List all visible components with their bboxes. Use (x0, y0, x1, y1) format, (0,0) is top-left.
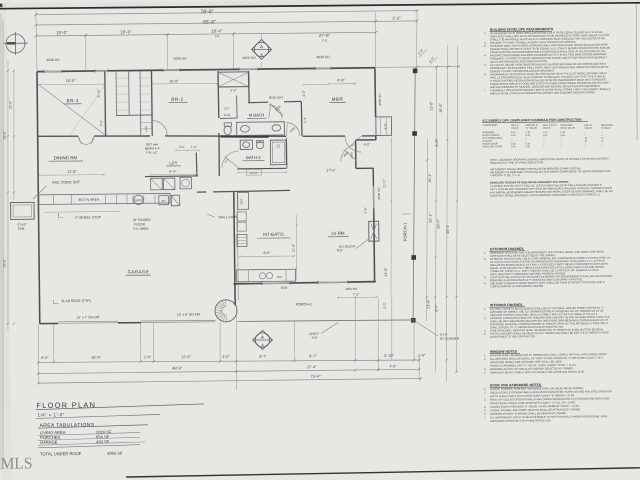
dimension 4'-8 MBR (328, 83, 355, 85)
svg-text:5'-0": 5'-0" (435, 139, 439, 147)
svg-text:MAX U: MAX U (511, 124, 519, 127)
svg-text:KIT-EAT'G: KIT-EAT'G (263, 232, 284, 237)
svg-text:GARAGE: GARAGE (128, 269, 150, 274)
svg-text:6.: 6. (484, 412, 486, 416)
svg-text:25'-0": 25'-0" (8, 100, 12, 109)
svg-text:0.60: 0.60 (561, 135, 566, 137)
svg-text:CLO: CLO (224, 113, 231, 117)
svg-text:0.45: 0.45 (561, 132, 566, 134)
dim line laundry width (150, 173, 196, 176)
svg-text:BR-2: BR-2 (171, 97, 183, 102)
bath2 tub (270, 140, 286, 165)
svg-text:3'-0": 3'-0" (179, 145, 185, 149)
svg-text:3'-6": 3'-6" (363, 207, 367, 213)
svg-text:2.: 2. (484, 257, 486, 261)
svg-text:0.40: 0.40 (511, 146, 516, 148)
svg-text:5.: 5. (484, 371, 486, 375)
wall LVRM east upper (372, 168, 375, 213)
wall dinette west (355, 140, 357, 168)
svg-text:0.47: 0.47 (543, 135, 548, 137)
wall master bath north (248, 101, 268, 103)
svg-text:CEILING: CEILING (482, 141, 492, 143)
svg-text:11'-8": 11'-8" (67, 170, 77, 174)
wall kitchen north (197, 191, 206, 193)
BR3 ceiling diagonals (38, 84, 104, 135)
svg-text:39'-0": 39'-0" (436, 219, 440, 229)
svg-text:3030: 3030 (281, 286, 288, 290)
window in LVRM east wall (372, 186, 374, 208)
svg-text:12' x 7' OH DR: 12' x 7' OH DR (76, 315, 100, 319)
kitchen counter south (237, 269, 296, 282)
svg-text:PORCH-1: PORCH-1 (402, 222, 407, 242)
wall garage south with OH door openings (40, 322, 58, 324)
master bath vanity with two sinks (237, 122, 285, 136)
svg-text:2'-0": 2'-0" (144, 355, 152, 359)
svg-text:16'-8": 16'-8" (169, 79, 179, 83)
closet shelf line (116, 114, 152, 116)
windows in north wall (44, 70, 62, 72)
svg-text:--: -- (585, 144, 587, 146)
porch east edge line with posts (410, 67, 418, 321)
dim line hall small (176, 149, 199, 151)
dimension row 10'-0 16'-0 18'-4 27'-8 (36, 32, 376, 36)
svg-text:6.: 6. (484, 72, 486, 76)
svg-text:2.: 2. (484, 316, 486, 320)
svg-text:4.: 4. (484, 405, 486, 409)
svg-text:8'-7": 8'-7" (259, 355, 267, 359)
scan shading left margin (0, 4, 12, 480)
chimney chase box with X brace (218, 72, 249, 87)
wall laundry east (195, 152, 198, 176)
svg-text:75'-4": 75'-4" (310, 374, 321, 379)
svg-text:--: -- (585, 132, 587, 134)
dim line MBR width (303, 83, 326, 85)
wall dinette south (356, 167, 373, 169)
svg-text:32'-1": 32'-1" (428, 213, 432, 223)
door arc MBR entry (345, 136, 361, 152)
svg-text:18'-6": 18'-6" (439, 102, 443, 112)
svg-text:10'-8": 10'-8" (250, 171, 258, 175)
svg-text:5.: 5. (484, 408, 486, 412)
svg-text:--: -- (543, 138, 545, 140)
svg-text:F.K.: F.K. (215, 34, 221, 38)
svg-text:MBR: MBR (332, 97, 344, 102)
svg-text:4'-0": 4'-0" (302, 89, 306, 97)
dim line BR2 width (153, 82, 217, 85)
svg-text:4050 SO: 4050 SO (345, 287, 358, 291)
svg-text:--: -- (601, 146, 603, 148)
svg-text:4'-4": 4'-4" (383, 122, 387, 130)
svg-text:1'-4": 1'-4" (303, 117, 307, 123)
entry corner glass block quarter circle (215, 300, 237, 322)
svg-text:2'-0": 2'-0" (418, 354, 426, 358)
svg-text:4050 RU: 4050 RU (378, 93, 382, 105)
svg-text:6'-0": 6'-0" (41, 356, 49, 360)
svg-text:18'-5": 18'-5" (66, 79, 76, 83)
svg-text:0.40: 0.40 (511, 132, 516, 134)
svg-text:--: -- (543, 141, 545, 143)
svg-text:F.K.: F.K. (322, 39, 328, 43)
svg-text:SLAB RECE (TYP): SLAB RECE (TYP) (61, 299, 91, 303)
svg-text:1.: 1. (484, 353, 486, 357)
svg-text:BUT-N AREA: BUT-N AREA (79, 198, 101, 202)
svg-text:--: -- (543, 144, 545, 146)
svg-text:18'-4": 18'-4" (211, 29, 223, 34)
svg-text:--: -- (525, 141, 527, 143)
dim line BR3 width (39, 83, 103, 86)
svg-text:VALUE: VALUE (543, 127, 551, 130)
svg-text:"U" VALUE: "U" VALUE (525, 127, 537, 130)
bath2 toilet (256, 142, 263, 149)
svg-text:WOOD DOOR: WOOD DOOR (482, 143, 497, 145)
laundry washer dryer boxes (151, 178, 163, 190)
svg-text:HAC CORD SHT: HAC CORD SHT (52, 180, 81, 184)
svg-text:7.: 7. (484, 415, 486, 419)
svg-text:MAX U ASCT: MAX U ASCT (543, 124, 558, 127)
svg-text:4'-0": 4'-0" (390, 364, 398, 368)
svg-text:--: -- (526, 138, 528, 140)
svg-text:0.40: 0.40 (511, 135, 516, 137)
svg-text:GARAGE: GARAGE (40, 440, 58, 445)
svg-text:16'-0": 16'-0" (120, 29, 132, 34)
svg-text:--: -- (601, 135, 603, 137)
svg-text:F.N. L/C: F.N. L/C (146, 150, 158, 154)
svg-text:3'-6": 3'-6" (230, 88, 236, 92)
boxed dimension 10-8 (246, 169, 261, 175)
cabinet diagonal box (171, 195, 180, 206)
svg-text:48'-0": 48'-0" (172, 366, 183, 371)
svg-text:4050 SO: 4050 SO (242, 56, 256, 60)
sheet left edge lines (0, 14, 6, 470)
svg-text:4040 SO: 4040 SO (377, 187, 381, 200)
svg-text:WALL CABS: WALL CABS (219, 215, 238, 219)
svg-text:--: -- (585, 135, 587, 137)
wall jog dinette north (356, 139, 376, 141)
svg-text:41'-8": 41'-8" (384, 267, 388, 277)
svg-text:5'2": 5'2" (224, 107, 229, 111)
kitchen refrigerator box (238, 192, 249, 209)
svg-text:66'-8": 66'-8" (203, 20, 216, 26)
svg-text:27'-8": 27'-8" (319, 33, 331, 38)
svg-text:8'-6": 8'-6" (263, 251, 271, 255)
A/C unit section symbol bottom (255, 333, 270, 348)
svg-text:16'-1": 16'-1" (428, 173, 432, 183)
svg-text:3.: 3. (484, 398, 486, 402)
kitchen pantry shelves (237, 234, 247, 246)
door arc BR3 double (78, 136, 86, 144)
svg-text:PROVIDED: PROVIDED (601, 125, 614, 127)
wall MBR east lower (375, 135, 377, 139)
door arc bath2 from laundry (222, 151, 239, 168)
sheet right edge line (636, 4, 638, 140)
svg-text:8'-7": 8'-7" (309, 354, 317, 358)
wall BR3 east (104, 71, 107, 136)
wall MBR east (374, 68, 377, 117)
wall bath2 south (237, 167, 286, 170)
svg-text:VALUE: VALUE (511, 127, 519, 130)
svg-text:3'-0": 3'-0" (222, 355, 230, 359)
AC symbol top extension (260, 34, 262, 42)
dimension extension verticals top (36, 11, 37, 70)
A/C unit section symbol top (254, 42, 269, 57)
svg-text:0.40: 0.40 (511, 144, 516, 146)
svg-text:PROVIDED: PROVIDED (561, 125, 574, 127)
svg-text:THROUGH C, DE, Y, L, D.: THROUGH C, DE, Y, L, D. (490, 173, 521, 177)
svg-text:BR-3: BR-3 (67, 98, 79, 103)
svg-text:2'-0": 2'-0" (383, 301, 387, 309)
svg-text:3.: 3. (484, 275, 486, 279)
closet CLO box master bath (236, 95, 238, 118)
svg-text:--: -- (561, 138, 563, 140)
svg-text:REF: REF (239, 198, 243, 204)
sheet top border line (0, 1, 640, 10)
wall garage west (38, 192, 39, 323)
svg-text:7'-2": 7'-2" (353, 292, 360, 296)
fireplace box LVRM (369, 221, 379, 241)
wall master bath west upper (247, 71, 250, 103)
wall WIC east = MBR west (300, 101, 303, 136)
svg-text:GLASS DOORS: GLASS DOORS (482, 134, 499, 137)
svg-text:REQUIRED AT TIME OF FINAL INSP: REQUIRED AT TIME OF FINAL INSPECTION. (490, 160, 544, 165)
svg-text:AT CORNER: AT CORNER (440, 337, 460, 341)
windows in south wall (262, 282, 290, 284)
svg-text:HARDWARE APPROVED FOR HANDICAP: HARDWARE APPROVED FOR HANDICAPPED USE. (490, 418, 552, 423)
svg-text:P.V. AREA: P.V. AREA (133, 227, 149, 231)
dimension line 66'-8 and 3'-0 (36, 21, 417, 26)
dimension vertical LVRM 11'-4 (295, 215, 297, 281)
door arc dinette to porch (341, 145, 357, 162)
svg-text:VALUE: VALUE (584, 127, 592, 130)
svg-text:2.: 2. (484, 391, 486, 395)
kitchen cabinet band dining side (39, 193, 170, 204)
sheet bottom border line (126, 468, 640, 477)
wall exterior west (37, 72, 38, 193)
svg-text:3.: 3. (484, 44, 486, 48)
kitchen west wall cabinet boxes (237, 212, 246, 221)
svg-text:10'-0": 10'-0" (56, 30, 68, 35)
svg-text:FDN: FDN (18, 227, 25, 231)
svg-text:3'-0": 3'-0" (392, 16, 401, 21)
svg-text:49'-4": 49'-4" (446, 224, 450, 234)
svg-text:1.: 1. (484, 31, 486, 35)
svg-text:0.45: 0.45 (526, 132, 531, 134)
left dimension verticals (12, 70, 15, 200)
corner mark top-left (0, 4, 2, 8)
svg-text:R VALUE: R VALUE (601, 127, 611, 130)
svg-text:BATH-2: BATH-2 (246, 155, 261, 160)
cabinet AH box (159, 195, 169, 204)
svg-text:LDY: LDY (169, 160, 177, 165)
svg-text:4'-4": 4'-4" (99, 119, 103, 126)
wall LVRM east lower (373, 214, 376, 282)
bath2 vanity (240, 140, 252, 149)
svg-text:8'-0": 8'-0" (434, 304, 438, 312)
svg-text:11'-4": 11'-4" (292, 243, 296, 252)
svg-text:--: -- (511, 141, 513, 143)
dimension vertical right of east wall (389, 137, 393, 297)
porch south edge line (237, 319, 414, 321)
bottom dimension line row3 (38, 378, 420, 383)
svg-text:7.: 7. (484, 88, 486, 92)
wall poche dark master bath south (220, 136, 268, 137)
right dimension verticals (432, 67, 440, 372)
svg-text:PORCH-2: PORCH-2 (296, 302, 313, 306)
wall laundry south (145, 175, 198, 178)
svg-text:--: -- (585, 146, 587, 148)
svg-text:--: -- (543, 146, 545, 148)
svg-text:2.: 2. (484, 357, 486, 361)
svg-text:4.: 4. (484, 53, 486, 57)
north arrow symbol (6, 34, 25, 53)
wall exterior south main (233, 282, 375, 284)
svg-text:--: -- (561, 144, 563, 146)
svg-text:WINDOWS: WINDOWS (482, 132, 494, 134)
svg-text:TYP: TYP (311, 336, 318, 340)
svg-text:4030 SO: 4030 SO (316, 55, 330, 59)
svg-text:4'-8": 4'-8" (337, 78, 345, 82)
svg-text:1.: 1. (484, 307, 486, 311)
bottom dimension line row2 (38, 369, 419, 373)
svg-text:4'-0": 4'-0" (364, 142, 371, 146)
svg-text:4.: 4. (484, 367, 486, 371)
svg-text:12'-0": 12'-0" (181, 355, 191, 359)
wall BR2 east hall (217, 71, 220, 118)
wall kitchen-garage east (234, 192, 235, 305)
svg-text:R.P.: R.P. (337, 248, 343, 252)
svg-text:78'-8": 78'-8" (200, 9, 213, 15)
svg-text:--: -- (601, 132, 603, 134)
svg-text:EXT FRAME WALL: EXT FRAME WALL (482, 137, 503, 140)
svg-text:0.40: 0.40 (525, 144, 530, 146)
svg-text:11'-0": 11'-0" (382, 178, 386, 187)
dimension line 78'-8 overall (36, 10, 417, 15)
bottom extension verticals (38, 324, 39, 383)
svg-text:0.35: 0.35 (526, 146, 531, 148)
scan shading top strip (0, 0, 637, 9)
door arc BR2 (152, 120, 167, 135)
svg-text:M BATH: M BATH (249, 113, 265, 118)
svg-text:18'-0": 18'-0" (91, 356, 101, 360)
svg-text:9'-4": 9'-4" (169, 170, 177, 174)
wall exterior north (37, 68, 375, 72)
svg-text:--: -- (511, 138, 513, 140)
door arc master bath entry (269, 105, 282, 118)
svg-text:DESC VALUE: DESC VALUE (560, 127, 575, 130)
svg-text:LV RM: LV RM (331, 231, 344, 236)
bay window MBR east (376, 117, 392, 136)
svg-text:DW: DW (277, 275, 282, 279)
porch south dim line (338, 296, 376, 298)
svg-text:3093 SF: 3093 SF (107, 451, 123, 456)
svg-text:COMPONENT: COMPONENT (482, 125, 498, 127)
stoop foundation box (11, 202, 35, 219)
svg-text:AH: AH (161, 199, 165, 203)
svg-text:15' x 8' OH DR: 15' x 8' OH DR (177, 312, 201, 316)
svg-text:4" WHEEL STOP: 4" WHEEL STOP (75, 215, 102, 219)
rod shelf door diagonal (270, 103, 283, 116)
overhead door 15x8 panel (141, 321, 216, 324)
svg-text:PRESCR D: PRESCR D (525, 125, 537, 127)
closet hatch rungs (117, 77, 128, 79)
svg-text:37'-4": 37'-4" (307, 365, 317, 369)
svg-text:MAX R: MAX R (584, 124, 592, 127)
svg-text:DINING RM: DINING RM (54, 155, 78, 160)
svg-text:1.: 1. (484, 251, 486, 255)
closet bank walls BR3-BR2 (115, 71, 118, 115)
wall corridor spine east-west (37, 135, 78, 138)
dimension 8'-6 kitchen (240, 255, 294, 258)
svg-text:5.: 5. (484, 63, 486, 67)
svg-text:11'-8": 11'-8" (429, 101, 433, 111)
svg-text:ACCEPTABLE TO THE CONTRACTOR.: ACCEPTABLE TO THE CONTRACTOR. (490, 334, 536, 339)
svg-text:0.45: 0.45 (526, 135, 531, 137)
svg-text:TOTAL UNDER ROOF: TOTAL UNDER ROOF (40, 451, 82, 456)
svg-text:4.: 4. (484, 332, 486, 336)
dim line dining width (39, 174, 104, 177)
svg-text:0.47: 0.47 (543, 132, 548, 134)
svg-text:CONFIGURATION OF EXPANSION FIN: CONFIGURATION OF EXPANSION FINISHES. (490, 284, 544, 289)
svg-text:4050 AH: 4050 AH (173, 57, 187, 61)
svg-text:INSUL MTL DOOR: INSUL MTL DOOR (482, 146, 502, 148)
svg-text:5'-10": 5'-10" (384, 354, 394, 358)
svg-text:--: -- (560, 141, 562, 143)
svg-text:4040 AH: 4040 AH (46, 58, 60, 62)
door arc WIC (286, 122, 299, 136)
overhead door 12x7 panel (58, 322, 118, 325)
svg-text:17'½": 17'½" (326, 168, 336, 172)
master bath toilet (224, 126, 231, 135)
bottom dimension line row1 (38, 358, 419, 364)
svg-text:4.: 4. (484, 281, 486, 285)
svg-text:--: -- (601, 144, 603, 146)
svg-text:1.: 1. (484, 387, 486, 391)
svg-text:--: -- (561, 146, 563, 148)
svg-text:ROD SHT: ROD SHT (269, 96, 283, 100)
svg-text:1/4" = 1'-0": 1/4" = 1'-0" (37, 412, 64, 417)
dim line bath2 width (238, 171, 286, 174)
wall WIC-bath2 divider (286, 138, 288, 169)
linen closet shelf lines (141, 121, 152, 123)
svg-text:BWR: BWR (135, 198, 143, 202)
dimension line top right porch (376, 66, 460, 67)
svg-text:21'-8": 21'-8" (426, 299, 430, 309)
water heater box (180, 177, 191, 189)
svg-text:1'-8": 1'-8" (191, 145, 197, 149)
